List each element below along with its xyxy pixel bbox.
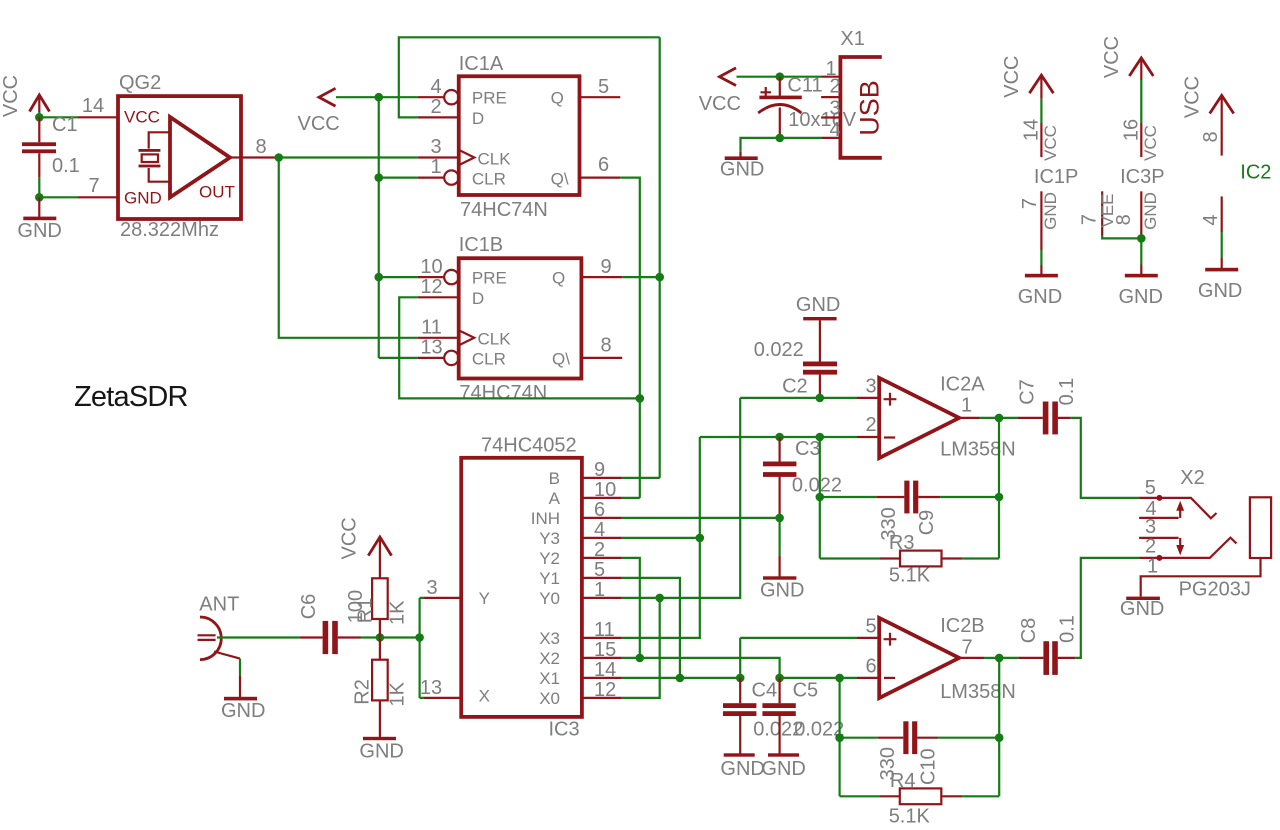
capacitor C11 (electrolytic): [758, 77, 802, 138]
svg-text:C2: C2: [782, 376, 808, 398]
wire IC2B minus row: [780, 677, 857, 679]
node Y1/X1 junction: [676, 674, 685, 683]
wire B to Q9 vertical: [622, 477, 660, 479]
svg-text:10x16V: 10x16V: [788, 109, 856, 131]
node C9 left junction: [816, 493, 825, 502]
svg-text:CLK: CLK: [478, 149, 512, 168]
node C10 right junction: [995, 733, 1004, 742]
svg-text:0.1: 0.1: [52, 155, 80, 177]
wire VCC vertical rail: [378, 97, 380, 358]
pin 4 of IC1A (PRE, inverted): [418, 76, 459, 104]
svg-text:GND: GND: [720, 158, 764, 180]
svg-text:D: D: [472, 289, 484, 308]
pin 5 of IC2B: [857, 616, 879, 638]
capacitor C8: [1018, 641, 1075, 675]
svg-text:C7: C7: [1016, 379, 1038, 405]
svg-text:2: 2: [594, 539, 605, 561]
svg-text:VCC: VCC: [1041, 125, 1060, 161]
svg-text:GND: GND: [1119, 286, 1163, 308]
svg-text:3: 3: [430, 136, 441, 158]
svg-text:R4: R4: [890, 770, 916, 792]
multiplexer IC3 74HC4052: [461, 458, 582, 717]
ground symbol GND (C3): [760, 556, 804, 602]
svg-text:X3: X3: [539, 629, 560, 648]
svg-text:10: 10: [594, 479, 616, 501]
svg-text:QG2: QG2: [119, 72, 161, 94]
svg-text:OUT: OUT: [199, 182, 235, 201]
svg-text:GND: GND: [761, 758, 805, 780]
svg-text:0.022: 0.022: [792, 475, 842, 497]
node C5/pin6 junction: [775, 674, 784, 683]
svg-text:12: 12: [594, 679, 616, 701]
power symbol VCC (top-left): [0, 75, 50, 117]
svg-text:Y2: Y2: [539, 549, 560, 568]
node Y0/X0 junction: [655, 594, 664, 603]
wire Q9 vertical to B-select: [659, 37, 661, 478]
svg-text:0.022: 0.022: [754, 339, 804, 361]
svg-text:15: 15: [594, 639, 616, 661]
svg-text:74HC74N: 74HC74N: [460, 199, 548, 221]
svg-text:CLK: CLK: [478, 330, 512, 349]
wire out to junction: [984, 657, 999, 659]
svg-text:Y0: Y0: [539, 589, 560, 608]
svg-text:C10: C10: [917, 748, 939, 785]
svg-text:A: A: [549, 489, 561, 508]
svg-text:Q: Q: [552, 269, 565, 288]
svg-text:8: 8: [601, 335, 612, 357]
pin 6 of IC3 (INH): [582, 499, 622, 521]
svg-text:GND: GND: [760, 580, 804, 602]
wire junction to PRE pin 10: [379, 276, 418, 278]
svg-text:9: 9: [594, 459, 605, 481]
svg-text:ZetaSDR: ZetaSDR: [74, 381, 188, 413]
svg-text:6: 6: [594, 499, 605, 521]
power symbol VCC (above R1): [339, 517, 392, 578]
svg-text:CLR: CLR: [472, 170, 506, 189]
svg-text:11: 11: [594, 619, 615, 641]
wire ANT stem to GND: [239, 659, 241, 676]
pin 7 of IC2B (out): [959, 637, 984, 659]
svg-text:VCC: VCC: [1141, 125, 1160, 161]
ground symbol GND (USB): [720, 151, 764, 180]
node feedback/minus junction: [816, 433, 825, 442]
wire Y3 to X3 vertical: [622, 537, 700, 539]
svg-text:74HC4052: 74HC4052: [481, 435, 577, 457]
svg-text:10: 10: [420, 256, 442, 278]
svg-text:Y3: Y3: [539, 529, 560, 548]
svg-text:IC3: IC3: [549, 719, 580, 741]
node VCC/C11/pin1 junction: [776, 72, 785, 81]
capacitor C4: [723, 678, 756, 747]
wire C3 to GND: [778, 518, 780, 556]
pin 14 of QG2: [77, 116, 118, 118]
svg-text:IC2A: IC2A: [940, 374, 985, 396]
node VCC/C1 junction: [35, 113, 44, 122]
capacitor C7: [1017, 402, 1070, 435]
svg-text:0.1: 0.1: [1056, 615, 1078, 643]
svg-text:5: 5: [594, 559, 605, 581]
oscillator QG2 28.322Mhz: [118, 96, 241, 219]
node C9 right junction: [995, 493, 1004, 502]
svg-text:2: 2: [829, 76, 840, 98]
wire ANT to C6: [217, 636, 299, 638]
power symbol VCC (left arrow near IC1A): [298, 88, 340, 135]
wire Q\6 to A-select vertical: [620, 178, 640, 498]
pin 1 of IC2A (out): [959, 395, 979, 418]
wire node to Y/X pins vertical: [380, 598, 423, 698]
svg-text:1K: 1K: [386, 681, 408, 706]
svg-text:GND: GND: [1018, 286, 1062, 308]
pin 2 of IC3 (Y2): [582, 539, 622, 561]
wire top feedback Q9 to D2: [399, 37, 660, 117]
svg-text:USB: USB: [855, 80, 885, 136]
wire X1 to C4 node: [622, 677, 740, 679]
pin 14 of IC3 (X1): [582, 659, 622, 681]
svg-text:13: 13: [420, 337, 442, 359]
capacitor C1: [22, 117, 56, 178]
svg-text:LM358N: LM358N: [940, 681, 1016, 703]
svg-text:0.1: 0.1: [1056, 378, 1078, 406]
svg-text:IC1B: IC1B: [459, 234, 503, 256]
wire node to USB pin 4: [780, 137, 821, 139]
svg-text:C1: C1: [52, 114, 78, 136]
svg-text:GND: GND: [221, 700, 265, 722]
pin 2 of IC2A: [857, 414, 879, 437]
svg-text:1: 1: [1147, 556, 1158, 578]
wire junction to CLK pin 3: [279, 156, 418, 158]
power pin group IC1P: [1001, 55, 1078, 274]
connector X1 USB: [821, 57, 884, 158]
svg-text:C3: C3: [795, 438, 821, 460]
flip-flop IC1A 74HC74N: [459, 76, 580, 195]
svg-text:GND: GND: [17, 220, 61, 242]
svg-text:GND: GND: [1198, 280, 1242, 302]
ground symbol GND (IC1P): [1018, 274, 1062, 308]
pin 2 of IC1A (D): [418, 96, 459, 118]
pin 6 of IC1A (Q\): [580, 154, 621, 178]
svg-text:7: 7: [1019, 198, 1041, 209]
pin 11 of IC1B (CLK): [418, 317, 459, 339]
wire IC2B plus row: [740, 638, 857, 678]
svg-text:D: D: [472, 109, 484, 128]
capacitor C9: [820, 481, 999, 514]
pin 3 of IC1A (CLK): [418, 136, 459, 158]
svg-text:1: 1: [594, 579, 605, 601]
resistor R1 1K: [372, 578, 388, 637]
svg-text:GND: GND: [796, 294, 840, 316]
pin 8 of QG2 (OUT): [241, 156, 276, 158]
svg-text:C8: C8: [1018, 618, 1040, 644]
wire VCC arrow to C11 node: [737, 76, 780, 78]
svg-text:ANT: ANT: [199, 594, 239, 616]
ground symbol GND (X2): [1120, 597, 1164, 620]
wire Y2 down to X2: [622, 558, 640, 658]
wire junction down to CLK11 row: [279, 158, 418, 338]
wire IC2B feedback vertical (right): [998, 658, 1000, 796]
wire node to GND corner: [741, 138, 780, 151]
pin 3 of IC2A: [857, 376, 879, 398]
node INH/C3 junction: [775, 514, 784, 523]
svg-text:VCC: VCC: [1101, 36, 1123, 78]
svg-text:VCC: VCC: [1182, 76, 1204, 118]
svg-text:Y: Y: [479, 589, 490, 608]
op-amp IC2B LM358N: [879, 618, 959, 698]
capacitor C2: [803, 362, 837, 398]
svg-text:VCC: VCC: [0, 75, 22, 117]
svg-text:4: 4: [430, 76, 441, 98]
wire Q9 to junction: [622, 276, 660, 278]
wire junction to PRE pin 4: [379, 96, 418, 98]
wire C1 node to pin 14: [39, 116, 77, 118]
node D12 feedback junction: [636, 394, 645, 403]
wire D12 feedback: vertical and bottom run: [399, 297, 640, 398]
wire node to USB pin 1: [780, 76, 821, 78]
svg-text:GND: GND: [1041, 192, 1060, 230]
svg-text:2: 2: [865, 414, 876, 436]
svg-text:14: 14: [82, 95, 104, 117]
resistor R3 5.1K: [820, 551, 999, 567]
svg-text:14: 14: [1021, 119, 1043, 141]
pin 4 of IC3 (Y3): [582, 519, 622, 541]
pin 12 of IC1B (D): [418, 276, 459, 298]
svg-text:1: 1: [430, 156, 441, 178]
svg-text:X: X: [479, 687, 490, 706]
svg-text:7: 7: [88, 175, 99, 197]
svg-text:GND: GND: [1120, 598, 1164, 620]
op-amp IC2A LM358N: [879, 378, 959, 458]
svg-text:R1: R1: [355, 598, 377, 624]
svg-text:Y1: Y1: [539, 569, 560, 588]
capacitor C6: [299, 621, 360, 654]
svg-text:X2: X2: [539, 649, 560, 668]
node C10 left junction: [835, 733, 844, 742]
node IC2A out junction: [995, 414, 1004, 423]
wire feedback vertical (right): [998, 418, 1000, 559]
svg-text:74HC74N: 74HC74N: [459, 382, 547, 404]
ground symbol GND (IC3P): [1119, 274, 1163, 308]
node CLR1 junction: [374, 173, 383, 182]
ground symbol GND (above C2): [796, 294, 840, 362]
svg-text:11: 11: [421, 317, 442, 339]
ground symbol GND (ANT): [221, 676, 265, 722]
pin 10 of IC3 (A): [582, 479, 622, 501]
node Y2/X2 junction: [636, 654, 645, 663]
node IC2B out junction: [995, 654, 1004, 663]
node Y3/X3 junction: [696, 534, 705, 543]
wire Y3/X3 vertical to IC2A minus row: [622, 437, 700, 638]
svg-text:GND: GND: [1141, 192, 1160, 230]
svg-text:X2: X2: [1180, 467, 1204, 489]
svg-text:VCC: VCC: [298, 113, 340, 135]
wire junction to CLR pin 1: [379, 177, 418, 179]
wire GND node to pin 7: [39, 196, 77, 198]
svg-text:C6: C6: [298, 594, 320, 620]
ground symbol GND (below C1): [17, 197, 61, 242]
svg-text:8: 8: [1200, 131, 1222, 142]
svg-text:5.1K: 5.1K: [889, 806, 931, 828]
pin 12 of IC3 (X0): [582, 679, 622, 701]
svg-text:4: 4: [829, 119, 840, 141]
svg-text:8: 8: [1113, 214, 1135, 225]
node PRE10 junction: [374, 273, 383, 282]
svg-text:C11: C11: [787, 75, 822, 97]
wire C8 to jack pin 2: [1075, 558, 1139, 658]
svg-text:C5: C5: [793, 680, 819, 702]
wire IC2A plus row: [740, 397, 857, 399]
svg-text:VCC: VCC: [339, 517, 361, 559]
svg-text:GND: GND: [124, 188, 162, 207]
wire C7 to jack pin 5: [1070, 418, 1139, 498]
pin 1 of IC1A (CLR, inverted): [418, 156, 459, 185]
svg-text:X1: X1: [539, 669, 560, 688]
svg-text:2: 2: [430, 96, 441, 118]
svg-text:IC2: IC2: [1240, 161, 1271, 183]
ground symbol GND (IC2): [1198, 268, 1242, 302]
svg-text:PRE: PRE: [472, 89, 507, 108]
node OUT junction: [274, 153, 283, 162]
svg-text:Q\: Q\: [552, 350, 570, 369]
node VCC/PRE4 junction: [374, 93, 383, 102]
svg-text:5: 5: [865, 616, 876, 638]
capacitor C5: [762, 678, 795, 747]
wire out junction to C8: [999, 657, 1018, 659]
svg-text:IC1A: IC1A: [459, 53, 504, 75]
node X1/C4 junction: [736, 674, 745, 683]
svg-text:4: 4: [594, 519, 605, 541]
pin 8 of IC1B (Q\): [581, 335, 622, 358]
svg-text:28.322Mhz: 28.322Mhz: [120, 219, 219, 241]
svg-text:2: 2: [1145, 535, 1156, 557]
antenna ANT: [198, 594, 241, 660]
ground symbol GND (below R2): [359, 737, 403, 763]
wire feedback vertical (left): [819, 437, 821, 559]
svg-text:16: 16: [1120, 119, 1142, 141]
resistor R4 5.1K: [840, 788, 1000, 804]
svg-text:R2: R2: [352, 679, 374, 705]
svg-text:14: 14: [594, 659, 616, 681]
wire VCC to C1 node: [38, 112, 40, 117]
svg-text:3: 3: [829, 97, 840, 119]
svg-text:Q: Q: [551, 89, 564, 108]
svg-text:INH: INH: [531, 509, 560, 528]
svg-text:5: 5: [1145, 477, 1156, 499]
power symbol VCC (USB, left arrow): [699, 68, 741, 115]
svg-text:Q\: Q\: [551, 170, 569, 189]
svg-text:GND: GND: [359, 741, 403, 763]
svg-text:3: 3: [426, 577, 437, 599]
svg-text:CLR: CLR: [472, 350, 506, 369]
svg-text:5.1K: 5.1K: [889, 565, 931, 587]
svg-text:12: 12: [420, 276, 442, 298]
capacitor C3: [763, 437, 796, 518]
svg-text:1: 1: [961, 395, 972, 417]
svg-text:VCC: VCC: [1001, 55, 1023, 97]
svg-text:PRE: PRE: [472, 269, 507, 288]
wire Y0 to IC2A plus vertical: [622, 398, 740, 598]
wire Y1 down to X1: [622, 578, 680, 678]
pin 9 of IC3 (B): [582, 459, 622, 481]
svg-text:6: 6: [598, 154, 609, 176]
wire A to Qbar6 vertical: [622, 497, 640, 499]
pin 1 of IC3 (Y0): [582, 579, 622, 601]
node C6/R1/R2 junction: [376, 633, 385, 642]
svg-text:6: 6: [865, 656, 876, 678]
power pin group IC2: [1182, 76, 1272, 268]
wire IC2B feedback vertical (left): [838, 678, 840, 796]
pin 6 of IC2B: [857, 656, 879, 678]
svg-text:VCC: VCC: [699, 93, 741, 115]
svg-text:IC3P: IC3P: [1120, 166, 1164, 188]
svg-text:4: 4: [1200, 214, 1222, 225]
wire C1 to GND node: [38, 178, 40, 198]
svg-text:B: B: [549, 469, 560, 488]
resistor R2 1K: [372, 638, 388, 738]
wire X0 up to Y0: [622, 598, 660, 698]
wire INH to C3 ground node: [622, 517, 780, 519]
pin 9 of IC1B (Q): [581, 256, 622, 278]
svg-text:3: 3: [865, 376, 876, 398]
node C11/pin4 junction: [776, 134, 785, 143]
flip-flop IC1B 74HC74N: [459, 258, 582, 378]
wire out junction to C7: [999, 417, 1017, 419]
node pin6/feedback junction: [835, 674, 844, 683]
pin 5 of IC1A (Q): [580, 76, 621, 98]
ground symbol GND (C4): [720, 747, 764, 780]
pin 5 of IC3 (Y1): [582, 559, 622, 581]
node C3 top junction: [775, 433, 784, 442]
svg-text:9: 9: [601, 256, 612, 278]
wire QG2 out to junction: [276, 156, 279, 158]
svg-text:13: 13: [420, 677, 442, 699]
pin 15 of IC3 (X2): [582, 639, 622, 661]
node junction at vertical: [415, 633, 424, 642]
pin 7 of QG2: [77, 196, 118, 198]
wire C6 to node: [361, 636, 380, 638]
svg-text:1K: 1K: [386, 600, 408, 625]
node C1/GND junction: [35, 193, 44, 202]
pin 3 of IC3 (Y): [423, 577, 461, 599]
svg-text:IC1P: IC1P: [1034, 166, 1078, 188]
svg-text:LM358N: LM358N: [940, 439, 1016, 461]
svg-text:7: 7: [961, 637, 972, 659]
wire IC2A minus row: [700, 436, 857, 438]
svg-text:R3: R3: [889, 532, 915, 554]
node C2/plus junction: [816, 394, 825, 403]
svg-text:VCC: VCC: [124, 108, 160, 127]
capacitor C10: [840, 721, 1000, 754]
pin 10 of IC1B (PRE, inverted): [418, 256, 459, 284]
svg-text:PG203J: PG203J: [1179, 579, 1251, 601]
svg-text:IC2B: IC2B: [940, 615, 984, 637]
pin 11 of IC3 (X3): [582, 619, 622, 641]
svg-text:X0: X0: [539, 689, 560, 708]
svg-text:5: 5: [598, 76, 609, 98]
svg-text:8: 8: [255, 136, 266, 158]
connector X2 PG203J jack: [1139, 495, 1271, 597]
node Q9 junction: [655, 273, 664, 282]
power pin group IC3P: [1079, 36, 1165, 274]
svg-text:X1: X1: [840, 28, 864, 50]
wire out to junction: [979, 417, 999, 419]
ground symbol GND (C5): [761, 747, 805, 780]
wire X2 to corner and pin6 node: [622, 658, 780, 678]
wire to CLR pin 13: [379, 357, 418, 359]
svg-text:C4: C4: [752, 680, 778, 702]
svg-text:C9: C9: [916, 510, 938, 536]
pin 13 of IC1B (CLR, inverted): [418, 337, 459, 366]
svg-text:GND: GND: [720, 758, 764, 780]
wire VCC arrow to vertical: [336, 96, 379, 98]
